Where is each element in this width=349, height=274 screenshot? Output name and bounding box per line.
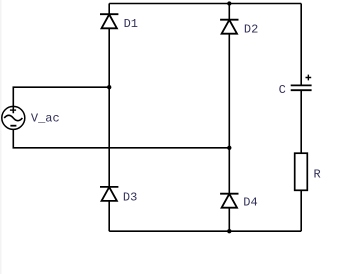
junction node at bottom rail and D4	[227, 229, 231, 233]
svg-text:D4: D4	[243, 196, 257, 210]
left screen edge shading	[0, 0, 2, 274]
wire right column lower (resistor to bottom rail)	[300, 190, 302, 231]
diode D4	[220, 194, 238, 208]
junction node at left column and V_ac plus wire	[107, 85, 111, 89]
wire middle column: D2 anode to D4 cathode	[228, 34, 230, 194]
voltage source minus sign	[10, 125, 16, 127]
svg-text:V_ac: V_ac	[31, 111, 60, 125]
svg-text:D1: D1	[124, 17, 138, 31]
svg-text:D2: D2	[244, 22, 258, 36]
voltage source V_ac circle	[2, 106, 25, 129]
wire left column: D1 anode to D3 cathode	[108, 28, 110, 187]
voltage source sine wave	[4, 115, 22, 120]
wire top rail	[109, 3, 301, 5]
wire right column upper (to capacitor)	[300, 4, 302, 85]
svg-text:R: R	[314, 167, 321, 181]
wire right column middle (capacitor to resistor)	[300, 90, 302, 153]
wire middle column: D4 anode to bottom rail	[228, 208, 230, 232]
diode D3	[100, 187, 118, 201]
wire left column: D3 anode to bottom rail	[108, 201, 110, 231]
svg-text:C: C	[279, 83, 286, 97]
diode D2	[220, 20, 238, 34]
junction node at middle column and V_ac minus wire	[227, 146, 231, 150]
svg-text:D3: D3	[123, 191, 137, 205]
diode D1	[100, 14, 118, 28]
voltage source plus sign	[10, 109, 16, 111]
wire from V_ac plus terminal up and right to node at left column	[13, 87, 109, 113]
wire bottom rail	[109, 230, 301, 232]
wire left column: top rail to D1 cathode	[108, 4, 110, 15]
capacitor C plates	[291, 85, 312, 90]
capacitor polarity plus sign	[306, 75, 312, 81]
wire from V_ac minus terminal down and right to node at middle column	[13, 129, 229, 148]
resistor R body	[295, 153, 308, 190]
wire middle column: top rail to D2 cathode	[228, 4, 230, 20]
junction node at top rail and D2	[227, 1, 231, 5]
